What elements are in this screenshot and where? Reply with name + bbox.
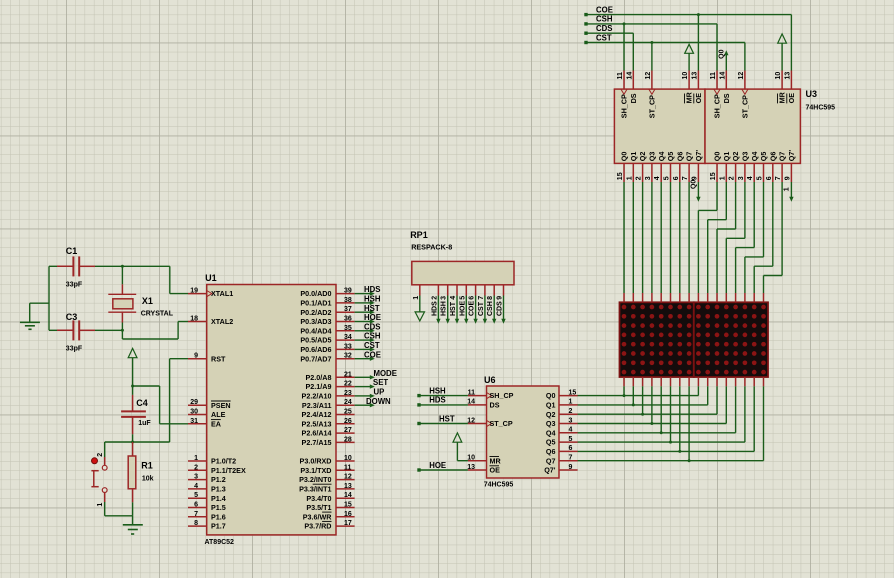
node COE at U1 P0.7 — [355, 350, 381, 361]
U1 pin 16 (P3.6/WR) — [303, 511, 355, 522]
U1 pin 6 (P1.5) — [188, 502, 226, 513]
svg-text:5: 5 — [194, 492, 198, 499]
svg-text:HDS: HDS — [429, 396, 445, 405]
capacitor C1 — [57, 246, 95, 288]
matrix bottom pin 16 — [763, 377, 765, 386]
matrix bottom pin 12 — [725, 377, 727, 386]
svg-text:P1.6: P1.6 — [211, 512, 226, 521]
svg-text:15: 15 — [617, 172, 624, 180]
svg-text:MODE: MODE — [374, 369, 397, 378]
U1 reference label — [205, 273, 217, 283]
U6 pin 9 (Q7') — [544, 464, 577, 475]
svg-text:2: 2 — [97, 453, 104, 457]
svg-text:6: 6 — [469, 296, 476, 300]
svg-text:P3.4/T0: P3.4/T0 — [306, 494, 331, 503]
power terminal at U2 MR — [685, 44, 694, 70]
matrix top pin 15 — [753, 293, 755, 302]
U1 pin 36 (P0.3/AD3) — [300, 316, 354, 327]
svg-text:11: 11 — [617, 72, 624, 80]
matrix bottom pin 3 — [642, 377, 644, 386]
svg-text:11: 11 — [344, 464, 352, 471]
node HST at U6 — [417, 414, 468, 425]
matrix top pin 4 — [651, 293, 653, 302]
U1 pin 34 (P0.5/AD5) — [300, 334, 354, 345]
pin 5 (Q5) — [664, 152, 676, 182]
svg-text:Q5: Q5 — [759, 152, 768, 162]
svg-text:9: 9 — [784, 176, 791, 180]
pin 14 (DS) — [626, 71, 638, 104]
svg-text:5: 5 — [459, 296, 466, 300]
pin 6 (Q6) — [673, 152, 685, 182]
svg-text:21: 21 — [344, 371, 352, 378]
svg-text:HDS: HDS — [364, 285, 380, 294]
matrix bottom pin 14 — [744, 377, 746, 386]
wire button bottom to ground — [105, 493, 133, 516]
node CST at U1 P0.6 — [355, 341, 380, 352]
svg-text:ALE: ALE — [211, 410, 226, 419]
pin 4 (Q4) — [747, 152, 759, 182]
svg-text:P2.5/A13: P2.5/A13 — [302, 419, 332, 428]
svg-text:U6: U6 — [484, 375, 496, 385]
wire U2 Q1 to matrix column 2 — [632, 182, 634, 293]
resistor R1 — [128, 442, 153, 502]
svg-text:Q4: Q4 — [546, 428, 556, 437]
svg-text:OE: OE — [490, 466, 501, 475]
svg-text:Q7': Q7' — [787, 150, 796, 162]
svg-text:HSH: HSH — [441, 301, 448, 316]
wire COE to U2 OE — [697, 13, 700, 70]
svg-text:4: 4 — [569, 427, 573, 434]
U1 pin 9 (RST) — [188, 353, 226, 364]
U1 pin 11 (P3.1/TXD) — [300, 464, 354, 475]
node DOWN at U1 P2.3 — [355, 397, 391, 408]
resistor pack RP1 body — [412, 261, 514, 284]
svg-text:P2.3/A11: P2.3/A11 — [302, 401, 332, 410]
pin 3 (Q3) — [738, 152, 750, 182]
matrix bottom pin 9 — [697, 377, 699, 386]
svg-text:14: 14 — [719, 72, 726, 80]
U6 pin 5 (Q5) — [546, 436, 578, 447]
LED matrix block 2 (8x8) — [694, 302, 768, 377]
svg-text:37: 37 — [344, 306, 352, 313]
svg-text:7: 7 — [194, 511, 198, 518]
pin 12 (ST_CP) — [738, 71, 750, 119]
svg-text:1: 1 — [194, 455, 198, 462]
svg-text:13: 13 — [784, 72, 791, 80]
U1 pin 39 (P0.0/AD0) — [300, 288, 354, 299]
svg-text:1: 1 — [413, 296, 420, 300]
RP1 pin 3 net HSH — [441, 285, 450, 324]
svg-text:10: 10 — [775, 72, 782, 80]
svg-text:P0.2/AD2: P0.2/AD2 — [300, 308, 331, 317]
svg-text:X1: X1 — [142, 296, 153, 306]
svg-text:ST_CP: ST_CP — [490, 419, 513, 428]
svg-text:10: 10 — [682, 72, 689, 80]
svg-text:SH_CP: SH_CP — [713, 94, 722, 118]
wire CDS horizontal — [586, 32, 633, 34]
pin 14 (DS) — [719, 71, 731, 104]
svg-text:P1.1/T2EX: P1.1/T2EX — [211, 466, 246, 475]
pin 13 (OE) — [691, 71, 703, 104]
wire U3 Q6 to matrix column 15 — [754, 182, 773, 293]
pin 1 (Q1) — [719, 152, 731, 182]
U6 pin 15 (Q0) — [546, 389, 578, 400]
U1 pin 10 (P3.0/RXD) — [300, 455, 355, 466]
pin 5 (Q5) — [757, 152, 769, 182]
svg-text:Q7: Q7 — [685, 152, 694, 162]
U1 pin 1 (P1.0/T2) — [188, 455, 236, 466]
U6 pin 6 (Q6) — [546, 445, 578, 456]
svg-text:Q7: Q7 — [546, 456, 556, 465]
svg-text:RST: RST — [211, 354, 226, 363]
svg-text:7: 7 — [775, 176, 782, 180]
svg-text:18: 18 — [190, 316, 198, 323]
matrix top pin 11 — [716, 293, 718, 302]
U6 pin 10 (MR) — [467, 455, 501, 466]
RP1 pin 6 net COE — [469, 285, 478, 324]
RP1 pin 8 net CSH — [487, 285, 496, 324]
wire U3 Q3 to matrix column 12 — [726, 182, 745, 293]
U1 pin 33 (P0.6/AD6) — [300, 343, 354, 354]
node CSH — [584, 15, 613, 26]
svg-text:14: 14 — [467, 399, 475, 406]
svg-text:3: 3 — [194, 474, 198, 481]
svg-text:P0.7/AD7: P0.7/AD7 — [300, 354, 331, 363]
svg-text:6: 6 — [673, 176, 680, 180]
U1 pin 24 (P2.3/A11) — [302, 399, 355, 410]
matrix top pin 14 — [744, 293, 746, 302]
ground symbol (reset) — [123, 516, 143, 534]
RP1 pin 1 with power terminal — [413, 285, 425, 321]
svg-text:4: 4 — [747, 176, 754, 180]
node HST at U1 P0.2 — [355, 304, 380, 315]
push button — [91, 442, 107, 507]
svg-text:CDS: CDS — [596, 24, 612, 33]
U1 pin 19 (XTAL1) — [188, 288, 233, 299]
node HSH at U6 — [417, 386, 468, 397]
pin 2 (Q2) — [729, 152, 741, 182]
U1 pin 37 (P0.2/AD2) — [300, 306, 354, 317]
svg-text:PSEN: PSEN — [211, 401, 231, 410]
svg-text:Q5: Q5 — [666, 152, 675, 162]
wire U2 Q3 to matrix column 4 — [651, 182, 653, 293]
svg-text:3: 3 — [441, 296, 448, 300]
U1 pin 21 (P2.0/A8) — [306, 371, 355, 382]
wire C1 left to junction — [49, 265, 57, 267]
U1 pin 5 (P1.4) — [188, 492, 226, 503]
shift register U3 (74HC595) body — [705, 89, 800, 163]
wire U6 Q5 to matrix row drivers — [578, 386, 745, 443]
svg-text:P0.1/AD1: P0.1/AD1 — [300, 299, 331, 308]
RP1 reference label — [410, 230, 428, 240]
svg-text:Q5: Q5 — [546, 438, 556, 447]
svg-text:HST: HST — [439, 414, 455, 423]
svg-text:13: 13 — [467, 464, 475, 471]
matrix top pin 6 — [670, 293, 672, 302]
U1 pin 14 (P3.4/T0) — [306, 492, 354, 503]
svg-text:DS: DS — [722, 93, 731, 103]
svg-text:RESPACK-8: RESPACK-8 — [411, 242, 452, 251]
power terminal at U6 MR — [453, 433, 468, 461]
svg-text:Q3: Q3 — [546, 419, 556, 428]
svg-text:Q4: Q4 — [657, 152, 666, 162]
wire C4 bottom to RST node — [131, 434, 134, 443]
svg-text:2: 2 — [729, 176, 736, 180]
wire CSH to U2 SH_CP — [623, 22, 626, 70]
U1 pin 31 (EA) — [188, 418, 221, 429]
svg-text:9: 9 — [691, 176, 698, 180]
power terminal at U3 MR — [778, 34, 787, 71]
svg-text:DOWN: DOWN — [366, 397, 391, 406]
pin 3 (Q3) — [645, 152, 657, 182]
svg-text:15: 15 — [344, 502, 352, 509]
matrix top pin 2 — [632, 293, 634, 302]
U1 pin 29 (PSEN) — [188, 399, 231, 410]
svg-text:19: 19 — [190, 288, 198, 295]
U3 value label 74HC595 — [806, 105, 836, 112]
node MODE at U1 P2.0 — [355, 369, 397, 380]
pin 11 (SH_CP) — [710, 71, 722, 119]
svg-text:4: 4 — [450, 296, 457, 300]
svg-text:Q6: Q6 — [675, 152, 684, 162]
svg-text:P2.0/A8: P2.0/A8 — [306, 373, 332, 382]
node CST — [584, 33, 612, 44]
svg-text:3: 3 — [645, 176, 652, 180]
svg-text:AT89C52: AT89C52 — [205, 539, 235, 546]
wire C3 left to junction — [49, 266, 57, 330]
RP1 pin 2 net HDS — [431, 285, 440, 324]
svg-text:COE: COE — [364, 350, 381, 359]
wire U6 Q2 to matrix row drivers — [578, 386, 718, 415]
svg-text:27: 27 — [344, 427, 352, 434]
matrix bottom pin 5 — [660, 377, 662, 386]
svg-text:9: 9 — [194, 353, 198, 360]
svg-text:35: 35 — [344, 325, 352, 332]
svg-text:2: 2 — [636, 176, 643, 180]
U1 pin 26 (P2.5/A13) — [302, 418, 355, 429]
svg-text:16: 16 — [344, 511, 352, 518]
svg-text:4: 4 — [194, 483, 198, 490]
svg-text:Q7: Q7 — [778, 152, 787, 162]
node SET at U1 P2.1 — [355, 378, 389, 389]
svg-text:23: 23 — [344, 390, 352, 397]
U6 pin 7 (Q7) — [546, 455, 578, 466]
wire U3 Q4 to matrix column 13 — [736, 182, 755, 293]
svg-text:38: 38 — [344, 297, 352, 304]
svg-text:CST: CST — [478, 301, 485, 316]
svg-text:Q0: Q0 — [546, 391, 556, 400]
RP1 pin 5 net HOE — [459, 285, 468, 324]
svg-text:CSH: CSH — [487, 301, 494, 316]
svg-text:P1.5: P1.5 — [211, 503, 226, 512]
svg-text:C3: C3 — [66, 312, 78, 322]
svg-text:DS: DS — [629, 93, 638, 103]
svg-text:MR: MR — [778, 91, 787, 103]
matrix top pin 3 — [642, 293, 644, 302]
svg-text:XTAL2: XTAL2 — [211, 317, 233, 326]
matrix top pin 7 — [679, 293, 681, 302]
svg-text:P1.4: P1.4 — [211, 494, 226, 503]
svg-text:13: 13 — [691, 72, 698, 80]
svg-text:MR: MR — [685, 91, 694, 103]
svg-text:CRYSTAL: CRYSTAL — [141, 310, 174, 317]
pin 10 (MR) — [775, 71, 787, 104]
svg-text:5: 5 — [569, 436, 573, 443]
U1 pin 4 (P1.3) — [188, 483, 226, 494]
wire U2 Q0 to matrix column 1 — [623, 182, 625, 293]
svg-text:14: 14 — [626, 72, 633, 80]
svg-text:P2.6/A14: P2.6/A14 — [302, 429, 332, 438]
svg-text:12: 12 — [738, 72, 745, 80]
svg-text:Q0: Q0 — [690, 180, 697, 189]
svg-text:P3.3/INT1: P3.3/INT1 — [299, 485, 331, 494]
RP1 value label RESPACK-8 — [411, 242, 452, 251]
capacitor C3 — [57, 312, 95, 352]
svg-text:U3: U3 — [806, 89, 818, 99]
U1 pin 3 (P1.2) — [188, 474, 226, 485]
svg-text:1: 1 — [569, 399, 573, 406]
svg-text:28: 28 — [344, 436, 352, 443]
svg-text:HOE: HOE — [364, 313, 381, 322]
svg-text:MR: MR — [490, 456, 502, 465]
U1 pin 38 (P0.1/AD1) — [300, 297, 354, 308]
U1 pin 28 (P2.7/A15) — [302, 436, 355, 447]
matrix top pin 12 — [725, 293, 727, 302]
wire VCC branch to EA — [131, 385, 188, 424]
node Q0 at U2 Q7' — [690, 180, 700, 202]
wire crystal top to XTAL1 net — [121, 265, 124, 284]
matrix bottom pin 15 — [753, 377, 755, 386]
svg-text:32: 32 — [344, 353, 352, 360]
svg-text:1: 1 — [783, 187, 790, 191]
svg-text:UP: UP — [374, 388, 385, 397]
svg-text:10: 10 — [467, 455, 475, 462]
wire COE horizontal — [586, 14, 791, 16]
svg-text:CST: CST — [364, 341, 380, 350]
wire U6 Q6 to matrix row drivers — [578, 386, 755, 453]
svg-text:HST: HST — [364, 304, 380, 313]
svg-text:2: 2 — [431, 296, 438, 300]
U1 pin 15 (P3.5/T1) — [306, 502, 354, 513]
svg-text:Q6: Q6 — [546, 447, 556, 456]
wire C3 right to crystal — [95, 329, 124, 332]
pin 9 (Q7') — [784, 150, 796, 182]
U1 pin 22 (P2.1/A9) — [306, 381, 355, 392]
svg-text:6: 6 — [194, 502, 198, 509]
svg-text:R1: R1 — [141, 460, 153, 470]
U1 pin 18 (XTAL2) — [188, 316, 233, 327]
U6 pin 14 (DS) — [467, 399, 499, 410]
node CDS at U1 P0.4 — [355, 322, 381, 333]
svg-text:Q0: Q0 — [620, 152, 629, 162]
wire U2 Q4 to matrix column 5 — [660, 182, 662, 293]
pin 4 (Q4) — [654, 152, 666, 182]
node HSH at U1 P0.1 — [355, 295, 381, 306]
RP1 pin 7 net CST — [478, 285, 487, 324]
microcontroller U1 (AT89C52) body — [207, 285, 336, 535]
U1 pin 12 (P3.2/INT0) — [299, 474, 354, 485]
U6 pin 13 (OE) — [467, 464, 500, 475]
svg-text:Q0: Q0 — [719, 49, 726, 58]
pin 9 (Q7') — [691, 150, 703, 182]
svg-text:15: 15 — [569, 389, 577, 396]
U6 pin 3 (Q3) — [546, 417, 578, 428]
U6 value label 74HC595 — [484, 482, 514, 489]
svg-text:P2.2/A10: P2.2/A10 — [302, 392, 332, 401]
svg-text:Q6: Q6 — [768, 152, 777, 162]
pin 13 (OE) — [784, 71, 796, 104]
svg-text:24: 24 — [344, 399, 352, 406]
U1 pin 35 (P0.4/AD4) — [300, 325, 354, 336]
svg-text:Q7': Q7' — [544, 466, 556, 475]
svg-text:COE: COE — [469, 301, 476, 317]
U6 pin 12 (ST_CP) — [467, 417, 513, 428]
wire U2 Q2 to matrix column 3 — [642, 182, 644, 293]
svg-text:12: 12 — [645, 72, 652, 80]
U1 pin 7 (P1.6) — [188, 511, 226, 522]
wire crystal bottom to XTAL2 — [122, 322, 188, 340]
wire U3 Q5 to matrix column 14 — [745, 182, 764, 293]
wire U6 Q0 to matrix row drivers — [578, 386, 699, 397]
matrix bottom pin 6 — [670, 377, 672, 386]
svg-text:P3.6/WR: P3.6/WR — [303, 512, 333, 521]
svg-text:C1: C1 — [66, 246, 78, 256]
U1 pin 2 (P1.1/T2EX) — [188, 464, 246, 475]
node COE — [584, 5, 613, 16]
wire CST to U2 ST_CP — [650, 41, 653, 71]
wire RST node — [105, 359, 188, 442]
matrix top pin 1 — [623, 293, 625, 302]
crystal X1 — [108, 284, 173, 322]
svg-text:SH_CP: SH_CP — [490, 391, 514, 400]
svg-text:RP1: RP1 — [410, 230, 428, 240]
svg-text:P1.7: P1.7 — [211, 522, 226, 531]
capacitor C4 — [121, 395, 151, 434]
svg-text:6: 6 — [569, 445, 573, 452]
pin 1 (Q1) — [626, 152, 638, 182]
node CDS — [584, 24, 612, 35]
node Q0 at U3 DS — [719, 49, 729, 70]
svg-text:11: 11 — [468, 389, 476, 396]
matrix top pin 10 — [707, 293, 709, 302]
wire CDS to U2 DS — [632, 33, 634, 70]
svg-text:HSH: HSH — [364, 295, 381, 304]
svg-text:Q7': Q7' — [694, 150, 703, 162]
svg-text:Q1: Q1 — [722, 152, 731, 162]
svg-text:1: 1 — [719, 176, 726, 180]
svg-text:P1.2: P1.2 — [211, 475, 226, 484]
U1 pin 17 (P3.7/RD) — [304, 520, 354, 531]
matrix bottom pin 13 — [735, 377, 737, 386]
svg-text:P2.1/A9: P2.1/A9 — [306, 382, 332, 391]
svg-text:OE: OE — [787, 93, 796, 104]
svg-text:DS: DS — [490, 401, 500, 410]
pin 15 (Q0) — [617, 152, 629, 182]
RP1 pin 9 net CDS — [497, 285, 506, 324]
svg-text:Q4: Q4 — [750, 152, 759, 162]
svg-text:74HC595: 74HC595 — [484, 482, 514, 489]
U6 pin 1 (Q1) — [546, 399, 578, 410]
svg-text:22: 22 — [344, 381, 352, 388]
U6 pin 2 (Q2) — [546, 408, 578, 419]
U1 pin 8 (P1.7) — [188, 520, 226, 531]
wire C1 right to XTAL1 — [95, 266, 188, 293]
svg-text:Q2: Q2 — [638, 152, 647, 162]
svg-text:33pF: 33pF — [66, 345, 83, 352]
svg-text:CSH: CSH — [364, 332, 381, 341]
wire COE to U3 OE — [790, 15, 792, 71]
svg-text:P3.2/INT0: P3.2/INT0 — [299, 475, 331, 484]
